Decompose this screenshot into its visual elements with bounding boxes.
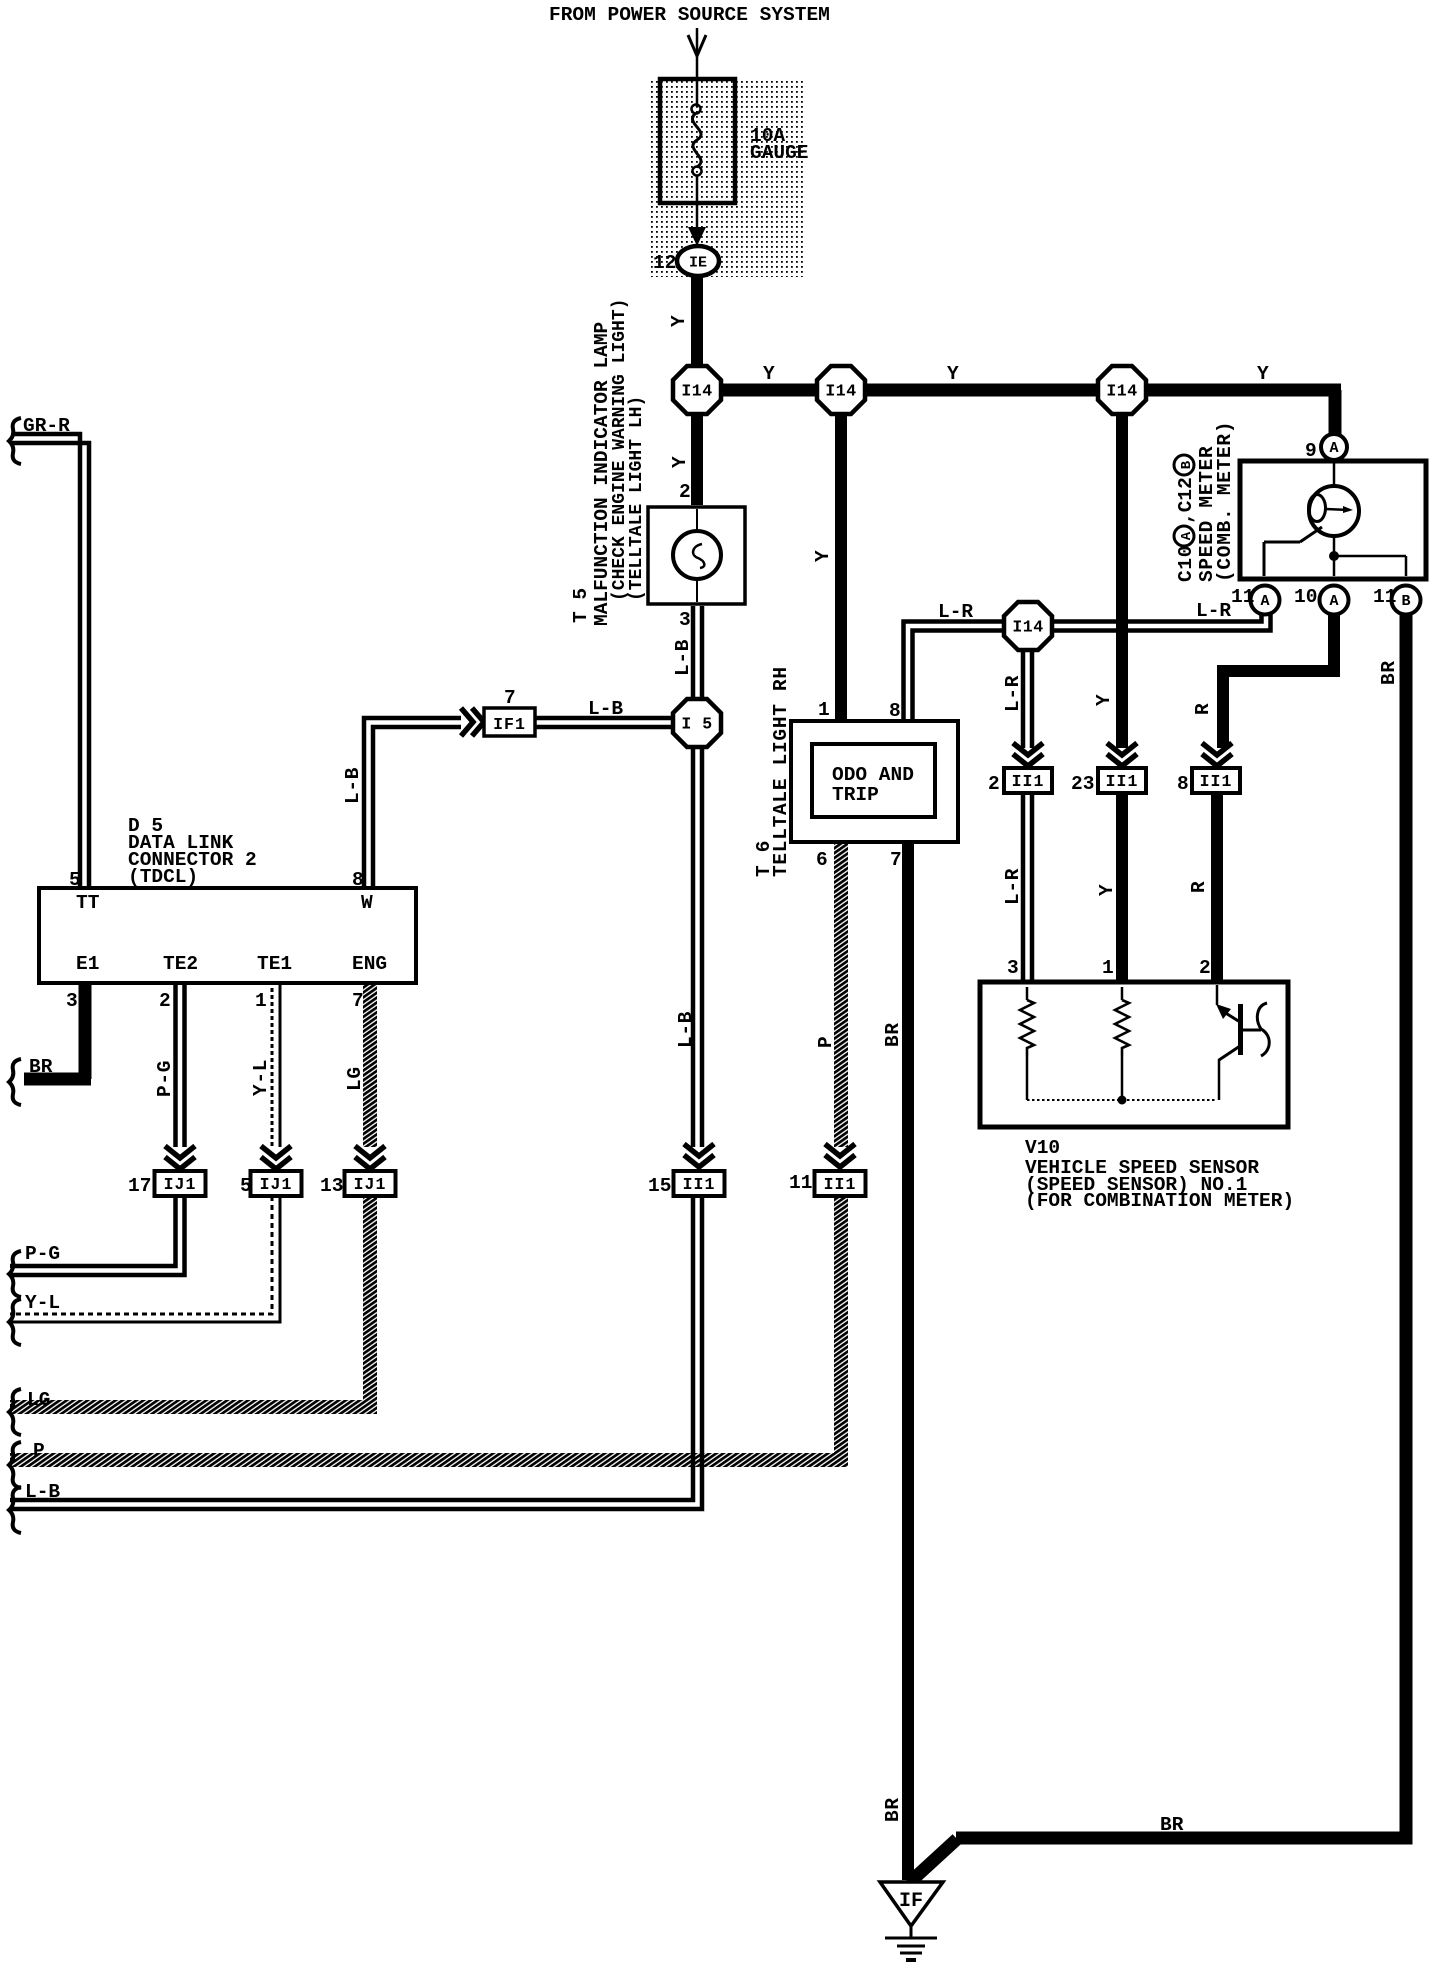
svg-text:L-R: L-R	[1002, 868, 1024, 905]
svg-text:8: 8	[889, 700, 901, 722]
svg-text:11: 11	[789, 1172, 812, 1194]
svg-text:A: A	[1329, 440, 1338, 457]
svg-text:6: 6	[816, 849, 828, 871]
svg-text:23: 23	[1071, 773, 1094, 795]
svg-text:II1: II1	[824, 1175, 857, 1194]
svg-text:I14: I14	[1012, 618, 1043, 637]
svg-text:B: B	[1401, 593, 1410, 610]
svg-text:Y: Y	[1096, 884, 1118, 896]
svg-text:Y: Y	[668, 315, 690, 327]
svg-text:V10: V10	[1025, 1137, 1060, 1159]
svg-text:BR: BR	[882, 1022, 904, 1047]
svg-text:3: 3	[1007, 957, 1019, 979]
svg-text:3: 3	[66, 990, 78, 1012]
svg-text:1: 1	[818, 699, 830, 721]
svg-text:15: 15	[648, 1175, 671, 1197]
svg-text:IF1: IF1	[493, 715, 526, 734]
svg-text:8: 8	[352, 869, 364, 891]
svg-text:3: 3	[679, 609, 691, 631]
svg-text:7: 7	[504, 687, 516, 709]
svg-text:A: A	[1329, 593, 1338, 610]
svg-text:ENG: ENG	[352, 953, 387, 975]
svg-text:13: 13	[320, 1175, 343, 1197]
svg-text:GAUGE: GAUGE	[750, 142, 809, 164]
svg-text:B: B	[1179, 460, 1195, 469]
svg-text:5: 5	[240, 1175, 252, 1197]
svg-text:1: 1	[255, 990, 267, 1012]
svg-text:(TELLTALE LIGHT LH): (TELLTALE LIGHT LH)	[627, 396, 647, 601]
svg-text:IJ1: IJ1	[354, 1175, 387, 1194]
svg-text:T 5: T 5	[570, 588, 592, 623]
svg-text:9: 9	[1305, 440, 1317, 462]
svg-text:R: R	[1192, 703, 1214, 715]
svg-text:Y: Y	[812, 550, 834, 562]
svg-text:FROM POWER SOURCE SYSTEM: FROM POWER SOURCE SYSTEM	[549, 4, 830, 26]
svg-text:L-R: L-R	[938, 601, 973, 623]
svg-text:L-B: L-B	[25, 1481, 60, 1503]
svg-text:8: 8	[1177, 773, 1189, 795]
svg-text:2: 2	[679, 481, 691, 503]
svg-text:IE: IE	[689, 255, 707, 272]
svg-text:(FOR COMBINATION METER): (FOR COMBINATION METER)	[1025, 1190, 1294, 1212]
svg-text:TRIP: TRIP	[832, 784, 879, 806]
svg-text:L-B: L-B	[672, 639, 694, 676]
svg-text:P-G: P-G	[154, 1060, 176, 1097]
svg-text:TELLTALE LIGHT RH: TELLTALE LIGHT RH	[770, 666, 792, 877]
svg-text:10: 10	[1294, 586, 1317, 608]
svg-text:ODO AND: ODO AND	[832, 764, 914, 786]
svg-text:BR: BR	[29, 1056, 53, 1078]
svg-text:P: P	[33, 1440, 45, 1462]
svg-text:LG: LG	[27, 1389, 50, 1411]
svg-text:TE2: TE2	[163, 953, 198, 975]
svg-text:Y: Y	[1257, 363, 1269, 385]
svg-text:II1: II1	[1200, 772, 1233, 791]
svg-text:GR-R: GR-R	[23, 415, 70, 437]
svg-text:II1: II1	[1012, 772, 1045, 791]
svg-text:Y: Y	[763, 363, 775, 385]
svg-text:BR: BR	[1378, 660, 1400, 685]
svg-text:L-B: L-B	[675, 1011, 697, 1048]
svg-text:TT: TT	[76, 892, 100, 914]
svg-text:A: A	[1179, 531, 1195, 540]
svg-text:I14: I14	[681, 382, 712, 401]
svg-text:IF: IF	[899, 1890, 923, 1913]
svg-text:12: 12	[653, 252, 676, 274]
svg-text:IJ1: IJ1	[260, 1175, 293, 1194]
svg-text:IJ1: IJ1	[164, 1175, 197, 1194]
svg-text:L-R: L-R	[1196, 600, 1231, 622]
svg-text:BR: BR	[882, 1797, 904, 1822]
svg-text:11: 11	[1231, 586, 1254, 608]
svg-text:2: 2	[1199, 957, 1211, 979]
svg-text:R: R	[1188, 881, 1210, 893]
svg-text:L-R: L-R	[1002, 675, 1024, 712]
svg-text:5: 5	[69, 869, 81, 891]
svg-text:11: 11	[1373, 586, 1396, 608]
svg-text:2: 2	[988, 773, 1000, 795]
svg-text:LG: LG	[344, 1066, 366, 1091]
svg-text:TE1: TE1	[257, 953, 292, 975]
svg-text:P: P	[815, 1036, 837, 1048]
svg-text:BR: BR	[1160, 1814, 1184, 1836]
svg-text:7: 7	[352, 990, 364, 1012]
svg-text:II1: II1	[683, 1175, 716, 1194]
svg-text:Y-L: Y-L	[25, 1292, 60, 1314]
svg-text:P-G: P-G	[25, 1243, 60, 1265]
svg-text:(COMB. METER): (COMB. METER)	[1214, 421, 1236, 582]
svg-text:(TDCL): (TDCL)	[128, 866, 198, 888]
svg-text:1: 1	[1102, 957, 1114, 979]
svg-text:A: A	[1260, 593, 1269, 610]
svg-text:L-B: L-B	[588, 698, 623, 720]
svg-text:L-B: L-B	[342, 767, 364, 804]
svg-text:I14: I14	[1106, 382, 1137, 401]
svg-text:E1: E1	[76, 953, 99, 975]
svg-text:I14: I14	[825, 382, 856, 401]
svg-text:Y: Y	[669, 456, 691, 468]
svg-text:Y: Y	[947, 363, 959, 385]
svg-text:C10: C10	[1175, 545, 1197, 582]
svg-text:II1: II1	[1106, 772, 1139, 791]
svg-text:,C12: ,C12	[1175, 477, 1197, 524]
svg-text:2: 2	[159, 990, 171, 1012]
svg-text:W: W	[361, 892, 373, 914]
svg-text:7: 7	[890, 849, 902, 871]
svg-text:17: 17	[128, 1175, 151, 1197]
svg-text:Y-L: Y-L	[250, 1059, 272, 1096]
svg-text:Y: Y	[1093, 694, 1115, 706]
svg-text:I 5: I 5	[681, 715, 712, 734]
